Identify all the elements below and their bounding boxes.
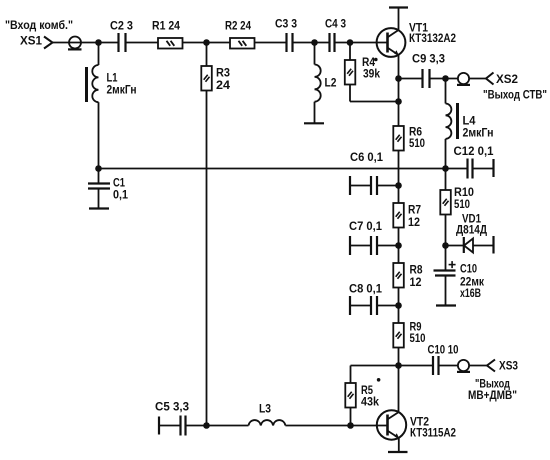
svg-text:Д814Д: Д814Д (456, 223, 487, 237)
svg-text:2мкГн: 2мкГн (107, 83, 137, 97)
svg-text:24: 24 (216, 78, 230, 92)
svg-text:КТ3132А2: КТ3132А2 (409, 31, 456, 45)
svg-text:C5 3,3: C5 3,3 (155, 400, 189, 414)
svg-text:x16В: x16В (460, 286, 481, 300)
svg-text:C8 0,1: C8 0,1 (349, 282, 382, 296)
svg-text:C2 3: C2 3 (110, 19, 133, 33)
svg-text:C6 0,1: C6 0,1 (350, 150, 383, 164)
svg-text:C12 0,1: C12 0,1 (454, 144, 494, 158)
svg-text:XS1: XS1 (20, 34, 42, 48)
svg-text:510: 510 (454, 197, 470, 211)
svg-text:R2 24: R2 24 (225, 19, 251, 33)
svg-text:12: 12 (410, 275, 422, 289)
svg-text:43k: 43k (361, 395, 379, 409)
svg-text:XS2: XS2 (496, 72, 518, 86)
svg-text:"Выход СТВ": "Выход СТВ" (483, 88, 547, 102)
svg-text:2мкГн: 2мкГн (463, 126, 494, 140)
svg-text:R1 24: R1 24 (152, 19, 180, 33)
svg-text:"Вход комб.": "Вход комб." (5, 18, 73, 32)
svg-text:0,1: 0,1 (113, 188, 128, 202)
svg-text:XS3: XS3 (499, 359, 518, 373)
svg-text:C10 10: C10 10 (428, 343, 459, 357)
svg-text:C10: C10 (460, 262, 477, 276)
svg-text:L3: L3 (259, 402, 271, 416)
svg-text:КТ3115А2: КТ3115А2 (410, 426, 456, 440)
svg-text:510: 510 (409, 136, 425, 150)
svg-text:C4 3: C4 3 (325, 17, 346, 31)
svg-text:39k: 39k (363, 67, 380, 81)
svg-text:C3 3: C3 3 (275, 17, 297, 31)
svg-text:МВ+ДМВ": МВ+ДМВ" (468, 388, 517, 402)
svg-text:C7 0,1: C7 0,1 (349, 219, 382, 233)
svg-text:C9 3,3: C9 3,3 (412, 52, 445, 66)
svg-text:12: 12 (408, 215, 420, 229)
svg-text:L2: L2 (325, 76, 337, 90)
svg-text:510: 510 (410, 331, 426, 345)
